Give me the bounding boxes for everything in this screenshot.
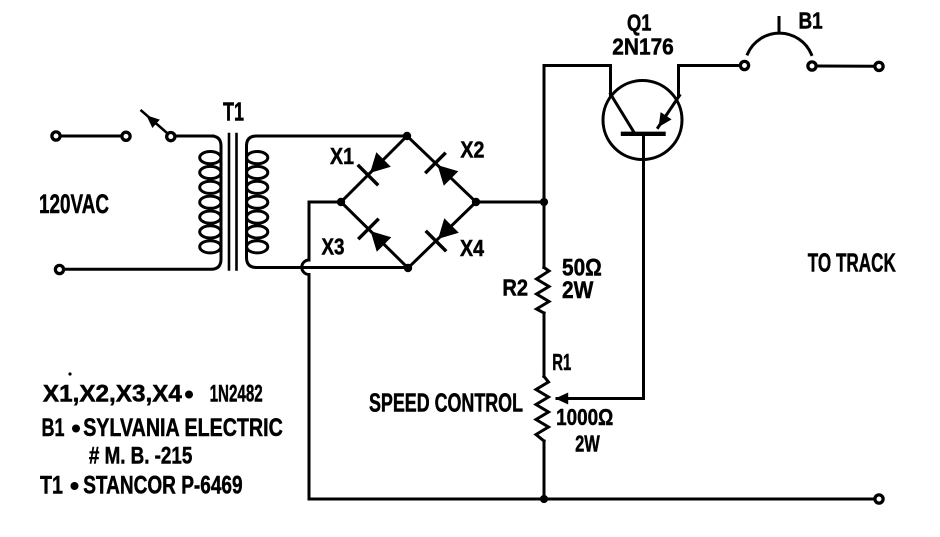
svg-text:SPEED CONTROL: SPEED CONTROL: [369, 388, 523, 418]
wire input top: [62, 135, 121, 138]
transformer T1 core: [228, 134, 231, 270]
wire main vertical top segment: [544, 66, 611, 203]
svg-text:# M. B. -215: # M. B. -215: [89, 442, 192, 469]
ink speck: [68, 372, 71, 375]
svg-text:SYLVANIA ELECTRIC: SYLVANIA ELECTRIC: [83, 414, 283, 442]
svg-text:2N176: 2N176: [612, 34, 674, 60]
circuit breaker B1 arc: [748, 33, 812, 54]
svg-text:120VAC: 120VAC: [39, 189, 109, 219]
junction node bottom rail: [540, 495, 548, 503]
wire bridge arm bottom-right: [408, 202, 476, 268]
wire breaker to track terminal: [817, 65, 874, 68]
svg-text:B1: B1: [799, 8, 823, 34]
diode X3: [358, 219, 391, 252]
svg-text:X1,X2,X3,X4: X1,X2,X3,X4: [43, 381, 183, 408]
circuit breaker B1 right terminal: [808, 62, 816, 70]
transistor Q1 emitter lead: [658, 96, 680, 128]
terminal bottom-left input: [55, 265, 63, 273]
terminal bottom track: [875, 495, 883, 503]
svg-text:T1: T1: [223, 97, 244, 127]
diode X2: [425, 153, 458, 186]
svg-text:X4: X4: [460, 235, 484, 261]
wire switch to transformer: [176, 135, 213, 138]
junction node bridge left: [337, 198, 345, 206]
transistor Q1 emitter arrowhead: [659, 112, 672, 127]
svg-text:X3: X3: [322, 234, 345, 260]
circuit breaker B1 tick: [778, 18, 781, 33]
junction node R2 top: [540, 198, 548, 206]
terminal top-left input: [52, 132, 60, 140]
wire bridge arm bottom-left: [341, 202, 408, 268]
transistor Q1 circle: [603, 81, 682, 160]
transformer T1 secondary winding: [247, 136, 408, 268]
wire R2 to R1: [543, 313, 546, 377]
junction node bridge top: [403, 132, 411, 140]
wire secondary bottom to bridge bottom node: [405, 266, 408, 269]
wire bottom rail: [309, 498, 874, 501]
diode X4: [426, 218, 459, 251]
svg-text:R2: R2: [502, 274, 528, 300]
wire Q1 base lead down to wiper: [557, 135, 644, 399]
switch S1 blade: [142, 111, 167, 133]
svg-text:Q1: Q1: [627, 10, 652, 36]
wire bridge AC- to bottom rail (with crossover hop): [302, 202, 341, 499]
transformer T1 primary winding: [65, 136, 221, 269]
svg-text:2W: 2W: [575, 431, 600, 457]
svg-text:X1: X1: [330, 143, 354, 169]
svg-text:2W: 2W: [562, 277, 594, 304]
circuit breaker B1 left terminal: [740, 61, 748, 69]
wire bridge arm top-right: [407, 136, 476, 202]
wire bridge output to R2 line: [476, 201, 544, 204]
transistor Q1 base bar: [623, 132, 664, 136]
terminal switch pole: [122, 132, 130, 140]
wire Q1 emitter to breaker: [679, 66, 740, 96]
svg-text:B1: B1: [42, 414, 65, 442]
resistor R2 zigzag: [537, 268, 550, 314]
svg-text:R1: R1: [552, 349, 571, 375]
switch S1 throw terminal: [167, 133, 175, 141]
wire bridge arm top-left: [341, 136, 407, 202]
svg-text:T1: T1: [40, 472, 63, 500]
potentiometer R1 wiper arrowhead: [555, 393, 568, 405]
wire R1 bottom lead: [543, 441, 546, 499]
transistor Q1 collector lead: [611, 94, 634, 132]
potentiometer R1 zigzag: [536, 377, 549, 442]
svg-text:1000Ω: 1000Ω: [556, 404, 613, 430]
junction node bridge right: [472, 198, 480, 206]
svg-text:STANCOR P-6469: STANCOR P-6469: [83, 472, 242, 500]
svg-text:TO TRACK: TO TRACK: [808, 248, 896, 278]
wire R2 top lead: [543, 202, 546, 268]
junction node bridge bottom: [404, 264, 412, 272]
terminal top track: [875, 62, 883, 70]
switch S1 blade arrowhead: [146, 115, 160, 128]
svg-text:1N2482: 1N2482: [210, 381, 263, 408]
diode X1: [358, 152, 391, 185]
svg-text:X2: X2: [460, 136, 484, 162]
